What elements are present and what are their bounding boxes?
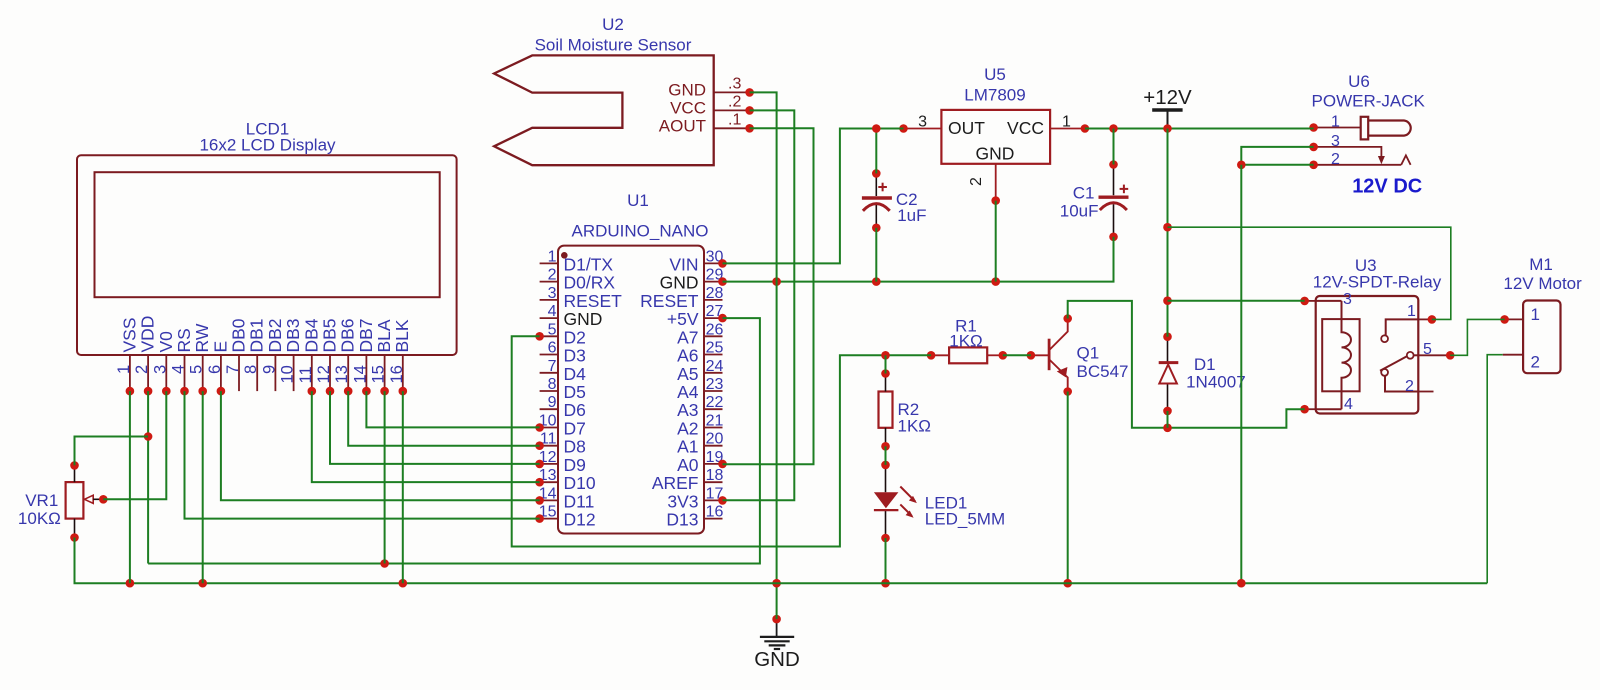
svg-text:LED_5MM: LED_5MM bbox=[925, 510, 1005, 529]
capacitor C2 leads bbox=[875, 173, 877, 227]
wire D2 to R1 node bbox=[512, 336, 886, 546]
wire sensor GND down to ground symbol bbox=[750, 92, 777, 619]
svg-text:D13: D13 bbox=[666, 510, 698, 530]
svg-text:DB3: DB3 bbox=[283, 318, 303, 352]
U5 pin 3 stub bbox=[904, 128, 942, 130]
svg-text:A5: A5 bbox=[677, 364, 698, 384]
U6 barrel rectangle bbox=[1361, 117, 1369, 140]
svg-text:1: 1 bbox=[1407, 303, 1416, 320]
LED LED1 leads bbox=[885, 465, 887, 538]
junction C2 top on +9V rail bbox=[872, 124, 881, 133]
Arduino Nano U1 body bbox=[558, 246, 704, 534]
svg-text:RS: RS bbox=[174, 328, 194, 352]
svg-text:.3: .3 bbox=[728, 75, 741, 92]
svg-text:10KΩ: 10KΩ bbox=[18, 509, 61, 528]
svg-text:12: 12 bbox=[315, 365, 333, 383]
U5 pin 1 stub bbox=[1050, 128, 1085, 130]
wire U5 GND pin to ground rail bbox=[995, 201, 997, 282]
U5 pin 2 stub bbox=[995, 164, 997, 201]
svg-text:5: 5 bbox=[548, 321, 557, 338]
ground symbol bbox=[760, 619, 794, 649]
svg-text:16x2 LCD Display: 16x2 LCD Display bbox=[199, 136, 336, 155]
svg-text:.2: .2 bbox=[728, 93, 741, 110]
U1 right pin numbers 30-16 bbox=[706, 248, 724, 520]
svg-text:1N4007: 1N4007 bbox=[1186, 373, 1246, 392]
wire LED bottom to bus bbox=[885, 538, 887, 583]
svg-text:16: 16 bbox=[706, 504, 724, 521]
U3 pin junctions bbox=[1300, 297, 1454, 414]
diode D1 leads bbox=[1167, 337, 1169, 411]
D1 cathode bar bbox=[1159, 361, 1179, 364]
svg-text:AOUT: AOUT bbox=[659, 116, 706, 135]
wire DB4 to D10 bbox=[312, 391, 540, 482]
LED1 pin junctions bbox=[881, 461, 890, 543]
D1 triangle outline bbox=[1159, 365, 1177, 384]
svg-text:1: 1 bbox=[1062, 114, 1071, 131]
svg-text:D8: D8 bbox=[564, 437, 586, 457]
svg-text:A2: A2 bbox=[677, 419, 698, 439]
svg-text:5: 5 bbox=[1423, 341, 1432, 358]
svg-text:8: 8 bbox=[548, 376, 557, 393]
svg-text:RESET: RESET bbox=[564, 291, 623, 311]
wire sensor VCC to 3V3 bbox=[723, 110, 795, 500]
svg-text:12V DC: 12V DC bbox=[1352, 176, 1422, 198]
U3 pin 4 internal lead bbox=[1316, 408, 1342, 410]
svg-text:3V3: 3V3 bbox=[667, 491, 698, 511]
svg-text:3: 3 bbox=[1343, 291, 1352, 308]
resistor R2 body bbox=[879, 392, 893, 428]
wire Q1 collector to relay coil pin 4 bbox=[1068, 301, 1305, 428]
junction D1 bottom on collector wire bbox=[1163, 424, 1172, 433]
svg-text:2: 2 bbox=[133, 365, 151, 374]
wire +9V rail OUT to C2/corner bbox=[723, 129, 904, 264]
U6 pin 2 lead bbox=[1314, 164, 1402, 166]
U6 pin 3 lead with switch arrow bbox=[1314, 147, 1385, 164]
svg-text:DB7: DB7 bbox=[356, 318, 376, 352]
svg-text:DB0: DB0 bbox=[229, 318, 249, 352]
svg-text:23: 23 bbox=[706, 376, 724, 393]
svg-text:POWER-JACK: POWER-JACK bbox=[1312, 92, 1426, 111]
svg-text:VCC: VCC bbox=[670, 99, 706, 118]
wire +12V down to relay branch and D1 bbox=[1167, 129, 1169, 337]
svg-text:V0: V0 bbox=[156, 331, 176, 353]
svg-text:3: 3 bbox=[151, 365, 169, 374]
wire VDD branch to VR1 top bbox=[75, 437, 149, 466]
R2 leads bbox=[885, 374, 887, 447]
wire Q1 emitter to bus bbox=[1067, 392, 1069, 584]
svg-text:3: 3 bbox=[918, 114, 927, 131]
svg-text:D10: D10 bbox=[564, 473, 596, 493]
Q1 emitter line bbox=[1050, 360, 1068, 392]
soil moisture sensor U2 body bbox=[494, 55, 714, 165]
U5 pin junctions bbox=[899, 124, 1089, 205]
svg-text:D11: D11 bbox=[564, 491, 595, 511]
svg-text:DB4: DB4 bbox=[301, 318, 321, 352]
wire +5V pin to bus bbox=[148, 318, 760, 563]
U3 pin 5 internal lead bbox=[1414, 354, 1419, 356]
wire DB5 to D9 bbox=[330, 391, 540, 464]
svg-text:D1/TX: D1/TX bbox=[564, 254, 614, 274]
wire E to D11 bbox=[221, 391, 540, 500]
wire D1 bottom to collector wire bbox=[1167, 411, 1169, 428]
svg-text:D7: D7 bbox=[564, 419, 586, 439]
svg-text:+12V: +12V bbox=[1143, 86, 1192, 109]
svg-text:VSS: VSS bbox=[119, 317, 139, 352]
svg-text:2: 2 bbox=[548, 267, 557, 284]
svg-text:8: 8 bbox=[242, 365, 260, 374]
U6 pin 1 stub bbox=[1314, 127, 1361, 129]
U3 pin 3 stub bbox=[1305, 300, 1316, 302]
svg-text:28: 28 bbox=[706, 285, 724, 302]
svg-text:GND: GND bbox=[564, 309, 603, 329]
svg-text:+5V: +5V bbox=[667, 309, 699, 329]
U1 left pin names bbox=[564, 254, 623, 529]
svg-text:GND: GND bbox=[668, 81, 706, 100]
wire C1 top connection bbox=[1113, 129, 1115, 165]
svg-text:ARDUINO_NANO: ARDUINO_NANO bbox=[572, 222, 709, 241]
svg-text:4: 4 bbox=[548, 303, 557, 320]
svg-text:11: 11 bbox=[297, 366, 315, 383]
junction jack ground corner bbox=[1237, 161, 1246, 170]
svg-text:D6: D6 bbox=[564, 400, 586, 420]
Q1 pin junctions bbox=[1027, 314, 1072, 396]
junction BLK on bus bbox=[399, 579, 408, 588]
svg-text:1uF: 1uF bbox=[897, 206, 926, 225]
svg-text:D1: D1 bbox=[1194, 355, 1216, 374]
svg-text:D3: D3 bbox=[564, 346, 586, 366]
resistor R1 body bbox=[949, 347, 987, 363]
LED1 triangle bbox=[874, 492, 899, 508]
svg-text:A4: A4 bbox=[677, 382, 699, 402]
wire R1 to Q1 base bbox=[1003, 354, 1031, 356]
svg-text:4: 4 bbox=[1344, 396, 1353, 413]
U3 pin 4 stub bbox=[1305, 408, 1316, 410]
svg-text:9: 9 bbox=[548, 394, 557, 411]
junction RW on bus bbox=[198, 579, 207, 588]
wire jack ground drop to bottom bus bbox=[1240, 165, 1242, 583]
wire relay pin 5 to M1 pin 1 bbox=[1450, 319, 1504, 355]
U1 connected left pin junctions bbox=[535, 332, 544, 523]
U1 pin-1 indicator dot bbox=[561, 252, 568, 259]
wire jack pin2 to ground drop bbox=[1241, 164, 1313, 166]
svg-text:VIN: VIN bbox=[669, 254, 698, 274]
wire RS to D12 bbox=[185, 391, 540, 518]
C1 curved plate bbox=[1100, 203, 1127, 210]
U3 common contact circle bbox=[1407, 352, 1414, 359]
junction jack ground on bus bbox=[1237, 579, 1246, 588]
LED1 light arrows bbox=[900, 487, 917, 518]
+12V power symbol stem bbox=[1167, 110, 1169, 129]
U1 right pin names bbox=[640, 254, 699, 529]
VR1 wiper arrow bbox=[84, 495, 93, 503]
svg-text:2: 2 bbox=[1405, 378, 1414, 395]
wire DB7 to D7 bbox=[366, 391, 539, 427]
svg-text:10uF: 10uF bbox=[1060, 202, 1099, 221]
U3 pin 2 internal lead bbox=[1385, 376, 1418, 392]
svg-text:RW: RW bbox=[192, 323, 212, 352]
wire BLK to bus bbox=[402, 391, 404, 583]
svg-text:21: 21 bbox=[706, 413, 724, 430]
svg-text:DB5: DB5 bbox=[320, 318, 340, 352]
junction LED net on bottom bus bbox=[881, 579, 890, 588]
wire +12V branch to relay pin 1 bbox=[1168, 227, 1451, 319]
svg-text:OUT: OUT bbox=[948, 118, 985, 138]
svg-text:1KΩ: 1KΩ bbox=[898, 417, 932, 436]
R1 pin junctions bbox=[927, 351, 1007, 360]
junction emitter on bottom bus bbox=[1063, 579, 1072, 588]
motor M1 body bbox=[1523, 301, 1560, 374]
Q1 collector line bbox=[1050, 319, 1068, 350]
svg-text:13: 13 bbox=[333, 365, 351, 383]
Q1 base lead bbox=[1031, 354, 1049, 356]
svg-text:25: 25 bbox=[706, 340, 724, 357]
U6 switch contact caret bbox=[1401, 155, 1410, 164]
U3 NO contact circle bbox=[1381, 335, 1388, 342]
U3 coil winding bbox=[1342, 301, 1352, 409]
U6 pin junctions bbox=[1309, 123, 1318, 169]
LCD display LCD1 body bbox=[77, 155, 457, 355]
U1 connected right pin junctions bbox=[718, 259, 727, 505]
C2 polarity plus sign bbox=[878, 183, 887, 192]
junction +12V flag on rail bbox=[1163, 124, 1172, 133]
U3 pin 1 stub bbox=[1418, 318, 1432, 320]
svg-text:D0/RX: D0/RX bbox=[564, 273, 616, 293]
svg-text:VDD: VDD bbox=[138, 316, 158, 353]
svg-text:10: 10 bbox=[279, 365, 297, 383]
svg-text:2: 2 bbox=[968, 177, 985, 186]
junction BLA on +5V bus bbox=[380, 559, 389, 568]
LCD1 pin name labels VSS..BLK bbox=[119, 316, 412, 353]
U3 NC contact circle bbox=[1381, 369, 1388, 376]
ground pin junction bbox=[772, 615, 781, 624]
voltage regulator U5 body bbox=[941, 110, 1050, 164]
wire sensor AOUT to A0 bbox=[723, 128, 814, 464]
C2 top plate bbox=[862, 196, 892, 199]
svg-text:A0: A0 bbox=[677, 455, 699, 475]
C2 pin junctions bbox=[872, 169, 881, 232]
wire +12V to relay coil pin 3 bbox=[1168, 300, 1305, 302]
U3 pin 1 internal lead bbox=[1386, 319, 1419, 335]
potentiometer VR1 body bbox=[66, 482, 84, 518]
LCD1 screen inner rectangle bbox=[95, 172, 440, 297]
R1 leads bbox=[931, 354, 1003, 356]
svg-text:A3: A3 bbox=[677, 400, 698, 420]
wire VDD drop bbox=[147, 391, 149, 563]
U3 coil frame bbox=[1322, 319, 1359, 391]
svg-text:.1: .1 bbox=[728, 111, 741, 128]
svg-text:AREF: AREF bbox=[652, 473, 699, 493]
junction VDD branch to VR1 bbox=[144, 432, 153, 441]
wire BLA drop to +5V bus bbox=[384, 391, 386, 563]
D1 pin junctions bbox=[1163, 332, 1172, 415]
U1 left pin numbers 1-15 bbox=[539, 248, 557, 520]
U2 pin stubs bbox=[714, 92, 750, 128]
svg-text:18: 18 bbox=[706, 467, 724, 484]
svg-text:BC547: BC547 bbox=[1077, 362, 1129, 381]
C2 curved plate bbox=[863, 204, 890, 211]
svg-text:24: 24 bbox=[706, 358, 724, 375]
svg-text:D4: D4 bbox=[564, 364, 587, 384]
junction C2 bottom on ground rail bbox=[872, 277, 881, 286]
svg-text:DB6: DB6 bbox=[338, 318, 358, 352]
svg-text:1: 1 bbox=[1331, 114, 1340, 131]
svg-text:Q1: Q1 bbox=[1077, 344, 1100, 363]
capacitor C1 leads bbox=[1113, 165, 1115, 237]
LCD1 pin number labels 1-16 bbox=[115, 365, 406, 384]
wire V0 to VR1 wiper bbox=[103, 391, 166, 499]
junction C1 on +12V rail bbox=[1109, 124, 1118, 133]
svg-text:D12: D12 bbox=[564, 510, 596, 530]
svg-text:BLA: BLA bbox=[374, 319, 394, 352]
svg-text:26: 26 bbox=[706, 321, 724, 338]
svg-text:7: 7 bbox=[548, 358, 557, 375]
svg-text:M1: M1 bbox=[1529, 255, 1553, 274]
svg-text:U6: U6 bbox=[1348, 72, 1370, 91]
svg-text:BLK: BLK bbox=[392, 319, 412, 352]
svg-text:LM7809: LM7809 bbox=[964, 86, 1025, 105]
wire VSS to bus bbox=[129, 391, 131, 583]
junction sensor GND on bottom bus bbox=[772, 579, 781, 588]
U3 pin 2 stub bbox=[1418, 391, 1433, 393]
svg-text:U1: U1 bbox=[627, 191, 649, 210]
svg-text:1: 1 bbox=[548, 248, 557, 265]
svg-text:3: 3 bbox=[548, 285, 557, 302]
U3 pin 5 stub bbox=[1418, 354, 1450, 356]
U3 pin 3 internal lead bbox=[1316, 300, 1342, 302]
+12V power symbol bar bbox=[1152, 108, 1182, 111]
svg-text:Soil Moisture Sensor: Soil Moisture Sensor bbox=[535, 36, 692, 55]
VR1 leads bbox=[74, 465, 76, 537]
svg-text:4: 4 bbox=[170, 365, 188, 374]
svg-text:E: E bbox=[210, 341, 230, 353]
svg-text:22: 22 bbox=[706, 394, 724, 411]
relay U3 body bbox=[1316, 296, 1419, 414]
U2 pin junctions bbox=[745, 88, 754, 133]
svg-text:A7: A7 bbox=[677, 327, 698, 347]
C1 polarity plus sign bbox=[1120, 185, 1129, 194]
U3 armature bbox=[1380, 356, 1407, 371]
svg-text:D9: D9 bbox=[564, 455, 586, 475]
transistor Q1 base bar bbox=[1048, 339, 1051, 371]
svg-text:GND: GND bbox=[754, 648, 800, 671]
LCD1 connected pin junctions bbox=[126, 387, 408, 396]
junction +12V to coil top bbox=[1163, 296, 1172, 305]
svg-text:5: 5 bbox=[188, 365, 206, 374]
junction U5 GND on ground rail bbox=[991, 277, 1000, 286]
wire R2 bottom to LED top bbox=[885, 446, 887, 465]
svg-text:2: 2 bbox=[1331, 151, 1340, 168]
svg-text:VR1: VR1 bbox=[25, 491, 58, 510]
wire R1 left node bbox=[886, 354, 932, 356]
svg-text:RESET: RESET bbox=[640, 291, 699, 311]
R2 pin junctions bbox=[881, 369, 890, 450]
wire C2 bottom to ground rail bbox=[875, 228, 877, 282]
M1 pin 1 stub bbox=[1505, 318, 1524, 320]
svg-text:1: 1 bbox=[115, 365, 133, 374]
svg-text:GND: GND bbox=[976, 144, 1015, 164]
svg-text:6: 6 bbox=[206, 365, 224, 374]
svg-text:12V Motor: 12V Motor bbox=[1503, 274, 1582, 293]
M1 pin 2 stub bbox=[1503, 354, 1523, 356]
svg-text:DB1: DB1 bbox=[247, 318, 267, 352]
wire M1 pin 2 to bottom bus bbox=[1487, 355, 1503, 584]
svg-text:U2: U2 bbox=[602, 15, 624, 34]
svg-text:3: 3 bbox=[1331, 133, 1340, 150]
C1 top plate bbox=[1099, 195, 1129, 198]
U1 left pin stubs 1-15 bbox=[540, 263, 558, 518]
svg-text:VCC: VCC bbox=[1007, 118, 1044, 138]
wire +12V rail bbox=[1085, 128, 1314, 130]
LCD1 pin stubs 1-16 bbox=[130, 355, 403, 391]
Q1 emitter arrow bbox=[1056, 365, 1068, 378]
junction R2 tee bbox=[881, 351, 890, 360]
wire C2 top to rail bbox=[875, 129, 877, 174]
svg-text:C1: C1 bbox=[1073, 184, 1095, 203]
svg-text:1KΩ: 1KΩ bbox=[949, 331, 983, 350]
VR1 pin junctions bbox=[70, 461, 107, 542]
LED1 cathode bar bbox=[874, 509, 899, 511]
svg-text:15: 15 bbox=[370, 365, 388, 383]
svg-text:6: 6 bbox=[548, 340, 557, 357]
svg-text:14: 14 bbox=[351, 365, 369, 383]
C1 pin junctions bbox=[1109, 160, 1118, 241]
wire ground rail GND29 to C1 bbox=[723, 237, 1114, 282]
svg-text:9: 9 bbox=[260, 365, 278, 374]
svg-text:12V-SPDT-Relay: 12V-SPDT-Relay bbox=[1313, 273, 1442, 292]
svg-text:D2: D2 bbox=[564, 327, 586, 347]
junction VSS on bus bbox=[126, 579, 135, 588]
svg-text:20: 20 bbox=[706, 431, 724, 448]
U1 right pin stubs 16-30 bbox=[704, 263, 723, 518]
svg-text:2: 2 bbox=[1531, 353, 1540, 372]
svg-text:DB2: DB2 bbox=[265, 318, 285, 352]
svg-text:A1: A1 bbox=[677, 437, 698, 457]
svg-text:D5: D5 bbox=[564, 382, 586, 402]
wire RW to bus bbox=[202, 391, 204, 583]
wire DB6 to D8 bbox=[348, 391, 539, 446]
junction sensor GND on ground rail bbox=[772, 277, 781, 286]
svg-text:16: 16 bbox=[388, 365, 406, 383]
wire jack pin3 to ground drop bbox=[1241, 147, 1313, 165]
svg-text:GND: GND bbox=[660, 273, 699, 293]
M1 pin 1 junction bbox=[1500, 315, 1509, 324]
wire bottom ground bus bbox=[75, 538, 1488, 584]
svg-text:1: 1 bbox=[1531, 305, 1540, 324]
svg-text:7: 7 bbox=[224, 365, 242, 374]
junction +12V branch to relay pin1 bbox=[1163, 223, 1172, 232]
VR1 wiper lead bbox=[93, 498, 103, 500]
U6 plug body bbox=[1368, 121, 1411, 136]
wire R2 top bbox=[885, 355, 887, 373]
svg-text:U5: U5 bbox=[984, 65, 1006, 84]
svg-text:A6: A6 bbox=[677, 346, 698, 366]
